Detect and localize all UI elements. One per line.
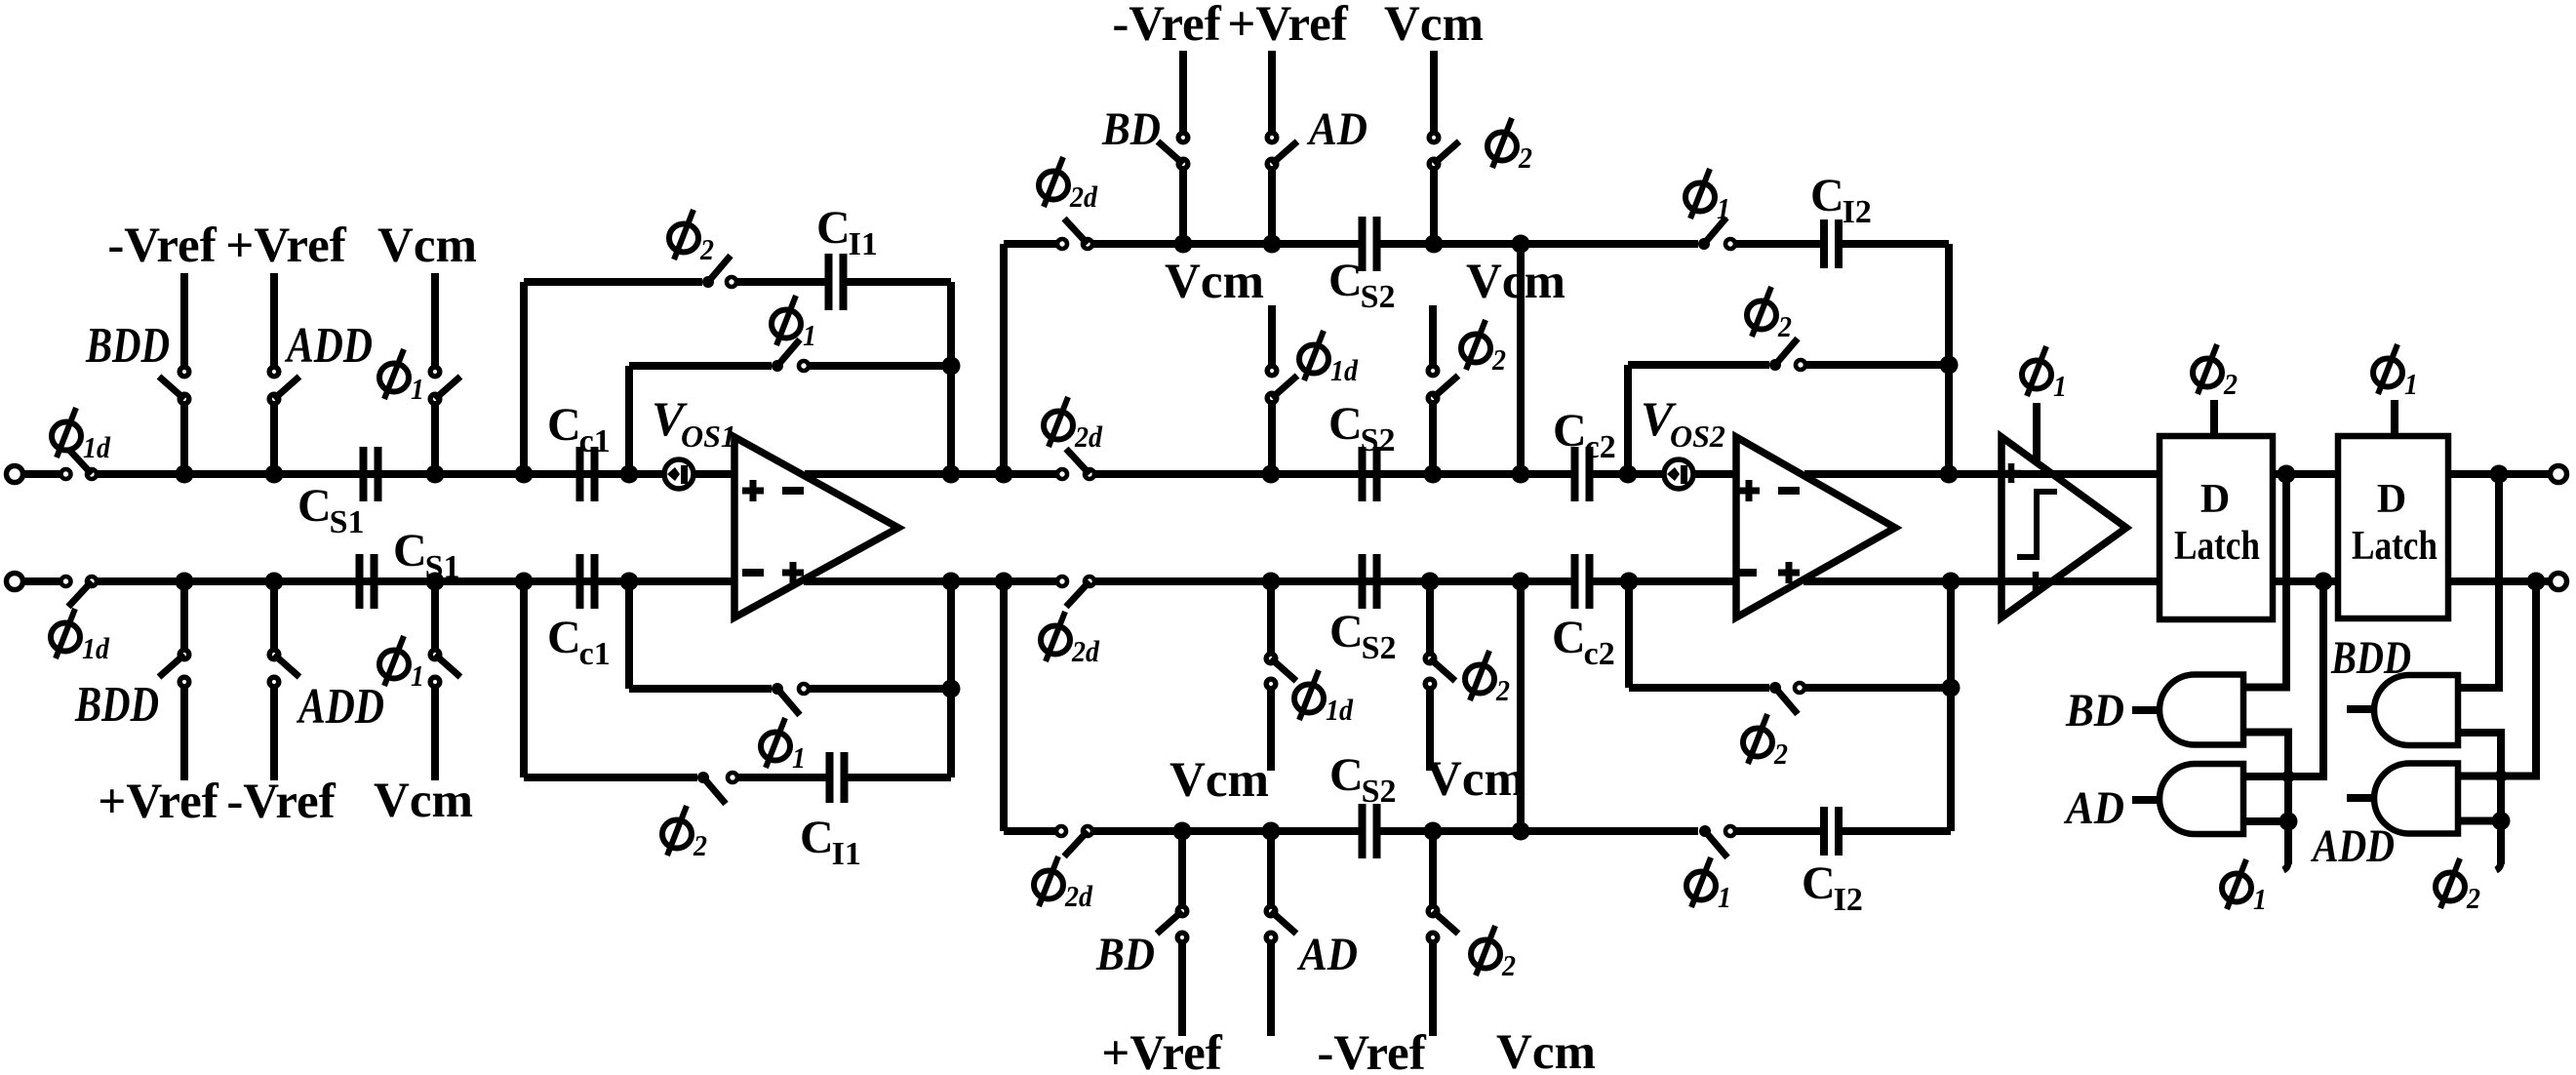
junction top rail x2344 [2278,465,2296,484]
junction top rail x1029 [995,465,1013,484]
wire top rail: comparator to D latch 1 [2052,470,2160,478]
junction top bus x1470 [1425,235,1444,254]
switch phi2d top rail [1057,469,1067,479]
svg-text:2: 2 [1518,140,1532,175]
svg-text:+Vref: +Vref [1227,0,1348,52]
svg-text:c2: c2 [1584,636,1615,672]
wire stage1 top inner feedback left [629,362,772,370]
junction bottom rail x537 [515,573,534,591]
switch phi2 stage1 bottom feedback [697,772,709,783]
wire Vcm stem top-left [431,273,439,367]
op-amp U1 input - top [782,487,804,495]
wire -Vref stem [180,273,188,367]
svg-text:C: C [1810,170,1844,221]
svg-text:BD: BD [1095,929,1155,980]
svg-text:S2: S2 [1361,422,1396,458]
junction bottom bus x1212 [1173,822,1192,841]
wire bottom rail: latch2 to output [2448,577,2550,585]
wire stage1 bottom outer feedback right [848,774,951,781]
svg-text:C: C [1802,857,1836,909]
wire Vcm stem bottom-left [431,687,439,780]
capacitor CI1 bottom feedback [826,752,834,803]
svg-text:2: 2 [1777,309,1792,343]
capacitor CS1 top rail [360,447,368,501]
D latch U3 box [2160,436,2273,619]
capacitor Cc1 bottom rail [576,554,584,609]
wire +Vref stem [270,273,278,367]
svg-text:OS2: OS2 [1670,418,1725,454]
svg-text:S1: S1 [425,549,460,585]
wire phi2 hook right pair [2496,858,2501,870]
wire AD switch to top bus [1268,169,1276,244]
junction top bus x1304 [1263,235,1282,254]
svg-text:2d: 2d [1074,419,1102,454]
wire top rail: latch1 to latch2 [2273,470,2338,478]
AND gate G4 (ADD) [2374,764,2458,834]
wire stage2 top inner feedback right [1806,361,1949,369]
switch phi1 bottom bus feedback [1699,825,1711,837]
wire phi2 switch to bottom bus [1429,831,1437,906]
op-amp U1 input + bottom [782,570,804,577]
label phi1d bottom input [51,609,80,658]
junction bottom rail x2600 [2527,573,2546,591]
switch ADD bottom [269,650,279,659]
svg-text:+Vref: +Vref [98,775,218,829]
label phi2d bottom rail [1041,612,1070,661]
label phi2 stage1 top feedback [669,210,698,259]
svg-text:1: 1 [411,658,424,693]
svg-text:2: 2 [1501,948,1516,982]
wire stage2 bus-rail vertical bottom x1559 [1517,581,1525,831]
junction top rail x1559 [1512,465,1530,484]
wire D latch 2 clock stem [2391,400,2398,436]
wire BD switch to top bus [1179,169,1187,244]
wire phi2 mid switch to bottom rail [1426,581,1434,654]
D latch U4 box [2338,436,2448,618]
switch phi1 stage1 top feedback [772,360,783,372]
label phi1 top-left [379,349,409,399]
svg-text:C: C [1329,749,1364,801]
switch phi2d bottom rail [1057,577,1067,586]
wire stage1 bottom inner feedback right [810,685,951,693]
wire stage1 top outer feedback horizontal left [524,278,702,286]
switch phi1 top bus feedback [1698,238,1710,250]
wire top rail: latch2 to output [2448,470,2550,478]
label phi2d bottom bus [1034,856,1063,906]
wire stage1 top outer feedback right [847,278,951,286]
wire stage2 top feedback right vertical [1945,244,1953,474]
switch BD stage2 top [1178,133,1188,142]
wire stage1 top inner feedback right [810,362,951,370]
wire top rail: U2 to comparator [1804,470,2001,478]
wire stage2 bottom feedback right vertical [1947,581,1955,831]
svg-text:ADD: ADD [297,679,384,735]
wire input top [23,470,60,478]
junction bottom rail x1303 [1262,573,1281,591]
svg-text:S2: S2 [1362,774,1397,810]
output terminal top [2551,466,2567,483]
label phi1 gates left pair [2222,859,2251,909]
wire stage2 top bus main [1092,240,1359,248]
switch BDD top [179,367,189,377]
wire latch2 Qbar to gate G4 [2458,581,2536,776]
svg-text:OS1: OS1 [681,418,736,454]
svg-text:-Vref: -Vref [107,219,217,273]
switch phi2 stage2 top feedback [1769,359,1781,371]
svg-text:1d: 1d [1326,693,1353,727]
wire bottom rail: U2 to comparator [1803,577,2001,585]
junction bottom bus x1469 [1424,822,1443,841]
svg-text:1: 1 [2253,882,2267,916]
svg-text:+Vref: +Vref [225,219,346,273]
svg-text:ADD: ADD [285,318,373,374]
wire stage1 bottom inner feedback left vertical [625,581,633,689]
offset source Vos2 circle [1664,459,1693,489]
switch AD stage2 top [1267,133,1277,142]
AND gate G3 (BDD) [2374,675,2458,745]
wire comparator clock stem [2033,403,2041,460]
wire AD switch to bottom bus [1267,831,1275,906]
svg-text:Vcm: Vcm [377,219,477,273]
junction top rail x975 [942,465,961,484]
junction bottom rail x975 [942,573,961,591]
wire Vcm stage2 stem [1430,51,1438,133]
wire gate G1 phi1 corner [2243,733,2288,865]
wire stage2 top bus left segment [1004,240,1056,248]
offset source Vos1 circle [664,459,694,489]
wire latch2 Q to gate G3 [2458,474,2499,688]
svg-text:1d: 1d [82,631,109,665]
wire BDD switch to bottom rail [180,581,188,650]
wire stage2 bottom bus left segment [1004,827,1055,835]
junction stage1 bottom feedback x975 [942,680,961,698]
wire bottom rail into comparator [2001,577,2052,585]
label phi1d stage2 top [1299,331,1328,380]
wire gate G4 lower pin [2458,817,2501,825]
wire -Vref stem bottom [270,687,278,780]
svg-text:2d: 2d [1064,879,1092,913]
svg-text:Latch: Latch [2352,524,2437,569]
label phi1 stage1 bottom feedback [761,718,790,768]
svg-text:Vcm: Vcm [1165,255,1264,309]
junction bottom rail x281 [265,573,284,591]
wire stage2 top bus after cap [1380,240,1698,248]
wire stage1 top outer feedback mid [737,278,825,286]
label phi2 stage2 mid top [1461,320,1490,370]
wire bottom rail: input switch to opamp U1 [97,577,734,585]
junction phi1 line crossing [2282,771,2295,783]
svg-text:BDD: BDD [74,677,159,733]
capacitor CS2 top rail [1359,447,1367,501]
op-amp U2 input + bottom [1778,570,1800,577]
capacitor Cc1 top rail [576,447,584,501]
wire phi2 switch to top bus [1430,169,1438,244]
label phi1 bottom bus feedback [1686,857,1716,907]
svg-text:ADD: ADD [2311,820,2395,872]
junction bottom rail crossing x2344 [2281,577,2291,586]
svg-text:C: C [547,399,581,451]
wire bottom bus phi1 to CI2 [1736,827,1821,835]
svg-text:2: 2 [699,232,714,266]
capacitor CI2 top feedback [1820,219,1828,268]
wire -Vref stage2 stem [1179,51,1187,133]
op-amp U1 input - bottom [742,569,764,577]
svg-text:Vcm: Vcm [1169,753,1269,808]
wire stage2 top bus left vertical [1000,244,1008,474]
comparator triangle [2001,437,2126,617]
junction bottom rail crossing x2562 [2494,577,2504,586]
svg-text:BDD: BDD [2330,632,2411,684]
label phi1d top input [52,408,81,458]
wire BDD switch to top rail [180,404,188,474]
wire stage2 bottom inner feedback horizontal [1629,684,1769,692]
switch phi2 stage2 bottom feedback [1769,682,1781,694]
wire stage2 bottom inner feedback right [1805,684,1951,692]
switch phi2 stage1 top feedback [702,276,714,288]
switch phi2 stage2 top bus branch [1429,133,1439,142]
op-amp U2 input - top [1778,487,1800,495]
switch BDD bottom [179,650,189,659]
wire top rail: input switch to opamp U1 [97,470,734,478]
junction bottom rail x2000 [1942,573,1961,591]
svg-text:C: C [1552,612,1586,663]
label phi2 stage2 top feedback [1747,287,1776,337]
svg-text:D: D [2200,477,2230,522]
label phi2 stage2 top bus branch [1487,118,1517,168]
label phi2 stage2 mid bottom [1465,651,1494,700]
svg-text:1: 1 [1718,880,1731,914]
svg-text:C: C [547,612,581,663]
svg-text:C: C [816,202,851,254]
wire +Vref stem bottom [180,687,188,780]
wire phi1 switch to bottom rail [431,581,439,650]
capacitor Cc2 bottom rail [1571,554,1579,609]
wire BD label to gate G1 [2132,706,2160,714]
junction stage2 bottom feedback x2000 [1942,679,1961,697]
op-amp U1 input + top [742,488,764,495]
wire ADD switch to top rail [270,404,278,474]
svg-text:1: 1 [1717,191,1730,225]
switch phi2d top bus [1057,239,1067,249]
wire phi1 switch to top rail [431,404,439,474]
wire gate G3 phi2 corner [2458,733,2501,864]
svg-text:C: C [297,480,332,532]
wire stage2 bottom bus after cap [1380,827,1698,835]
svg-text:C: C [1328,398,1363,450]
svg-text:AD: AD [1296,929,1358,980]
wire -Vref stage2 stem bottom [1267,942,1275,1036]
svg-text:S1: S1 [330,504,365,540]
svg-text:1: 1 [411,372,424,406]
svg-text:Vcm: Vcm [1426,752,1526,807]
switch ADD top [269,367,279,377]
op-amp U2 input + top [1738,488,1760,495]
svg-text:2: 2 [1491,342,1506,377]
svg-text:C: C [1329,606,1364,657]
capacitor CI1 top feedback [825,254,833,310]
label phi2 stage2 bottom bus branch [1471,926,1500,975]
svg-text:1: 1 [2404,367,2418,401]
junction top rail x537 [515,465,534,484]
wire +Vref stage2 stem [1268,51,1276,133]
wire bottom rail: phi2d to Cc2 [1094,577,1575,585]
svg-text:C: C [393,525,427,577]
junction phi2 line crossing [2495,770,2508,782]
svg-text:Vcm: Vcm [1384,0,1484,52]
junction top rail x281 [265,465,284,484]
switch phi1d stage2 top [1267,366,1277,376]
wire top rail: phi2d to Cc2 [1094,470,1575,478]
junction stage1 top feedback x975 [942,357,961,376]
junction top rail x1304 [1262,465,1281,484]
svg-text:2d: 2d [1071,634,1099,668]
svg-text:Vcm: Vcm [374,774,473,828]
svg-text:c1: c1 [579,423,611,459]
svg-text:2: 2 [2466,881,2480,915]
wire BDD label to gate G3 [2347,705,2374,713]
wire stage2 bottom bus left vertical [1000,581,1008,831]
switch phi1 stage1 bottom feedback [772,683,783,695]
wire ADD label to gate G4 [2347,794,2374,802]
label phi1d stage2 bottom [1294,670,1324,720]
op-amp U2 triangle [1736,437,1895,617]
comparator + top [2001,470,2021,477]
svg-text:BD: BD [2065,685,2124,737]
capacitor CS2 bottom rail [1359,554,1367,609]
AND gate G1 (BD) [2160,675,2243,745]
junction bottom rail x645 [620,573,639,591]
label phi1 bottom-left [379,636,409,686]
wire stage1 bottom outer feedback horizontal left [524,774,697,781]
wire stage1 bottom outer feedback left vertical [520,581,528,777]
switch phi2 stage2 mid bottom [1425,654,1435,663]
wire phi1d switch to top rail [1268,403,1276,474]
switch phi1 bottom-left [430,650,440,659]
svg-text:2d: 2d [1069,179,1097,214]
junction top rail x1469 [1424,465,1443,484]
switch phi2 stage2 mid top [1428,366,1438,376]
switch phi1 top-left [430,367,440,377]
wire bottom rail: U1 to phi2d switch [804,577,1056,585]
switch AD stage2 bottom [1266,906,1276,916]
wire top rail: U1 to phi2d switch [805,470,1056,478]
junction bottom rail x189 [176,573,194,591]
junction top bus x1213 [1174,235,1193,254]
svg-text:Vcm: Vcm [1496,1025,1596,1075]
svg-text:I1: I1 [832,836,861,872]
svg-text:S2: S2 [1361,279,1396,315]
svg-text:S2: S2 [1362,630,1397,666]
svg-text:c2: c2 [1585,429,1616,465]
wire top bus phi1 to CI2 [1735,240,1821,248]
capacitor CS2 bottom bus [1359,804,1367,858]
label phi2d top rail [1044,397,1073,447]
junction bottom rail x1670 [1620,573,1639,591]
svg-text:2: 2 [693,828,707,862]
junction top rail x446 [426,465,445,484]
junction bottom rail x2382 [2315,573,2333,591]
wire bottom rail: Cc2 to U2 [1590,577,1736,585]
svg-text:I2: I2 [1834,882,1863,918]
svg-text:1: 1 [803,318,816,352]
capacitor CS2 top bus [1359,217,1367,271]
svg-text:2: 2 [1773,737,1788,771]
wire stage1 bottom feedback right vertical [947,581,955,777]
label phi2 stage2 bottom feedback [1743,714,1772,764]
wire stage1 top inner feedback left vertical [625,366,633,474]
junction bottom rail x1029 [995,573,1013,591]
wire latch1 Qbar to gate G2 [2243,581,2323,776]
wire stage2 bottom inner feedback left vertical [1625,581,1633,688]
svg-text:BD: BD [1101,103,1161,155]
switch phi1d bottom input [61,577,71,586]
wire stage2 bottom bus main [1092,827,1359,835]
wire Vcm mid-left stem bottom [1267,689,1275,771]
svg-text:1d: 1d [83,430,110,464]
wire stage1 top outer feedback left vertical [520,282,528,474]
wire stage1 bottom outer feedback mid [738,774,826,781]
wire stage1 bottom inner feedback left [629,685,772,693]
capacitor Cc2 top rail [1571,447,1579,501]
op-amp U1 triangle [734,437,898,617]
svg-text:I1: I1 [849,226,878,262]
junction phi1 line at gate G2 pin [2279,813,2298,831]
label phi2 D latch 1 clock [2193,344,2222,394]
svg-text:-Vref: -Vref [226,775,336,829]
wire gate G2 lower pin [2243,817,2288,825]
wire bottom rail: latch1 to latch2 [2273,577,2338,585]
label phi2d top bus [1039,157,1068,207]
junction bottom bus x1556 [1512,822,1530,841]
wire stage1 top feedback right vertical [947,282,955,474]
svg-text:c1: c1 [579,636,611,672]
label phi1 top bus feedback [1685,169,1715,219]
wire top bus CI2 to corner [1842,240,1949,248]
switch phi1d stage2 bottom [1266,654,1276,663]
switch phi1d top input [61,469,71,479]
wire D latch 1 clock stem [2210,400,2218,436]
switch BD stage2 bottom [1177,906,1187,916]
junction bottom rail x1466 [1421,573,1440,591]
wire Vcm mid-left stem top [1268,305,1276,366]
wire AD label to gate G2 [2132,796,2160,804]
svg-text:C: C [800,812,834,863]
svg-text:2: 2 [2223,367,2238,401]
capacitor CS1 bottom rail [356,554,364,609]
svg-text:1: 1 [792,740,806,775]
input terminal top (Vin+) [7,466,23,483]
wire BD switch to bottom bus [1178,831,1186,906]
svg-text:Vcm: Vcm [1466,255,1565,309]
junction bottom bus x1303 [1262,822,1281,841]
svg-text:C: C [1553,405,1587,457]
svg-text:+Vref: +Vref [1101,1026,1222,1075]
junction top rail x645 [620,465,639,484]
svg-text:1: 1 [2053,369,2067,403]
switch phi2d bottom bus [1056,826,1066,836]
op-amp U2 input - bottom [1735,569,1757,577]
wire bottom rail: comparator to D latch 1 [2052,577,2160,585]
label phi1 stage1 top feedback [772,296,801,345]
capacitor CI2 bottom feedback [1820,807,1828,856]
comparator hysteresis symbol [2017,492,2057,557]
wire top rail: Vos2 to U2 [1693,470,1736,478]
svg-text:C: C [1328,255,1363,306]
svg-text:I2: I2 [1843,194,1872,230]
wire stage2 bus-rail vertical top x1559 [1517,244,1525,474]
AND gate G2 (AD) [2160,764,2243,834]
wire phi2 mid switch to top rail [1429,403,1437,474]
